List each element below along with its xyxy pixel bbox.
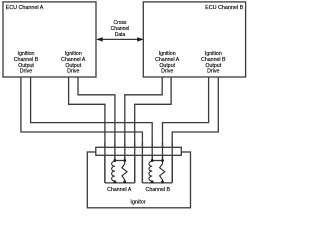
svg-text:Channel A: Channel A [107, 187, 132, 193]
svg-text:Drive: Drive [161, 69, 173, 75]
svg-text:Drive: Drive [67, 69, 79, 75]
svg-text:ECU Channel B: ECU Channel B [205, 5, 243, 11]
svg-text:Ignitor: Ignitor [130, 199, 145, 205]
svg-text:Channel B: Channel B [146, 187, 171, 193]
svg-text:Data: Data [115, 32, 126, 38]
svg-text:Drive: Drive [20, 69, 32, 75]
svg-text:ECU Channel A: ECU Channel A [6, 5, 44, 11]
svg-text:Drive: Drive [207, 69, 219, 75]
